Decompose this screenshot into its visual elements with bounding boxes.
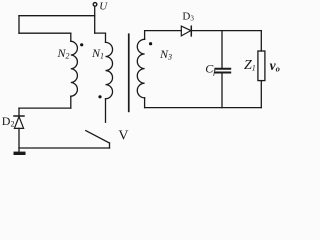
ground bar — [14, 152, 26, 155]
wire horizontal N2 bottom to D2 — [19, 107, 71, 109]
svg-text:vo: vo — [270, 58, 280, 73]
wire from U terminal down — [94, 7, 96, 33]
winding N3 — [137, 39, 144, 98]
switch V blade — [86, 131, 110, 143]
diode D2 triangle — [14, 117, 23, 129]
transformer core — [128, 33, 130, 112]
winding N1 — [106, 42, 113, 98]
wire D2 anode lead — [18, 128, 20, 152]
wire Z1 top lead — [260, 31, 262, 51]
svg-text:N1: N1 — [91, 46, 104, 61]
wire D2 cathode lead — [18, 108, 20, 116]
diode D3 triangle — [181, 26, 191, 36]
svg-text:D3: D3 — [182, 10, 194, 22]
diode D3 cathode bar — [190, 26, 192, 36]
svg-text:N3: N3 — [159, 47, 172, 62]
svg-text:N2: N2 — [57, 46, 70, 61]
wire N3 bottom lead — [144, 98, 146, 108]
svg-text:Z1: Z1 — [244, 58, 256, 73]
svg-text:V: V — [118, 129, 128, 144]
wire bottom rail — [19, 147, 110, 149]
polarity dot N3 — [149, 42, 152, 45]
polarity dot N2 — [80, 43, 83, 46]
wire N1 bottom lead — [105, 99, 107, 123]
capacitor Cf bottom plate — [215, 72, 230, 74]
polarity dot N1 — [98, 95, 101, 98]
wire D3 to Z1 top — [191, 30, 261, 32]
terminal U circle — [93, 3, 97, 7]
wire N1 top lead — [95, 33, 106, 42]
wire horizontal feed to N2 — [19, 32, 71, 34]
load Z1 box — [258, 51, 265, 81]
wire N2 bottom lead — [70, 96, 72, 108]
wire Cf top lead — [221, 31, 223, 68]
winding N2 — [71, 41, 78, 96]
wire Z1 bottom lead — [260, 81, 262, 108]
wire top horizontal to left branch — [19, 15, 95, 17]
wire N3 top lead — [145, 31, 182, 40]
wire secondary bottom rail — [145, 107, 262, 109]
svg-text:Cf: Cf — [205, 62, 217, 76]
wire N2 top lead — [70, 33, 72, 41]
svg-text:U: U — [99, 0, 108, 12]
wire switch bottom stub — [109, 143, 111, 148]
wire left vertical — [18, 16, 20, 34]
wire Cf bottom lead — [221, 74, 223, 108]
diode D2 cathode bar — [14, 115, 24, 117]
svg-text:D2: D2 — [2, 114, 15, 129]
capacitor Cf top plate — [215, 68, 230, 70]
